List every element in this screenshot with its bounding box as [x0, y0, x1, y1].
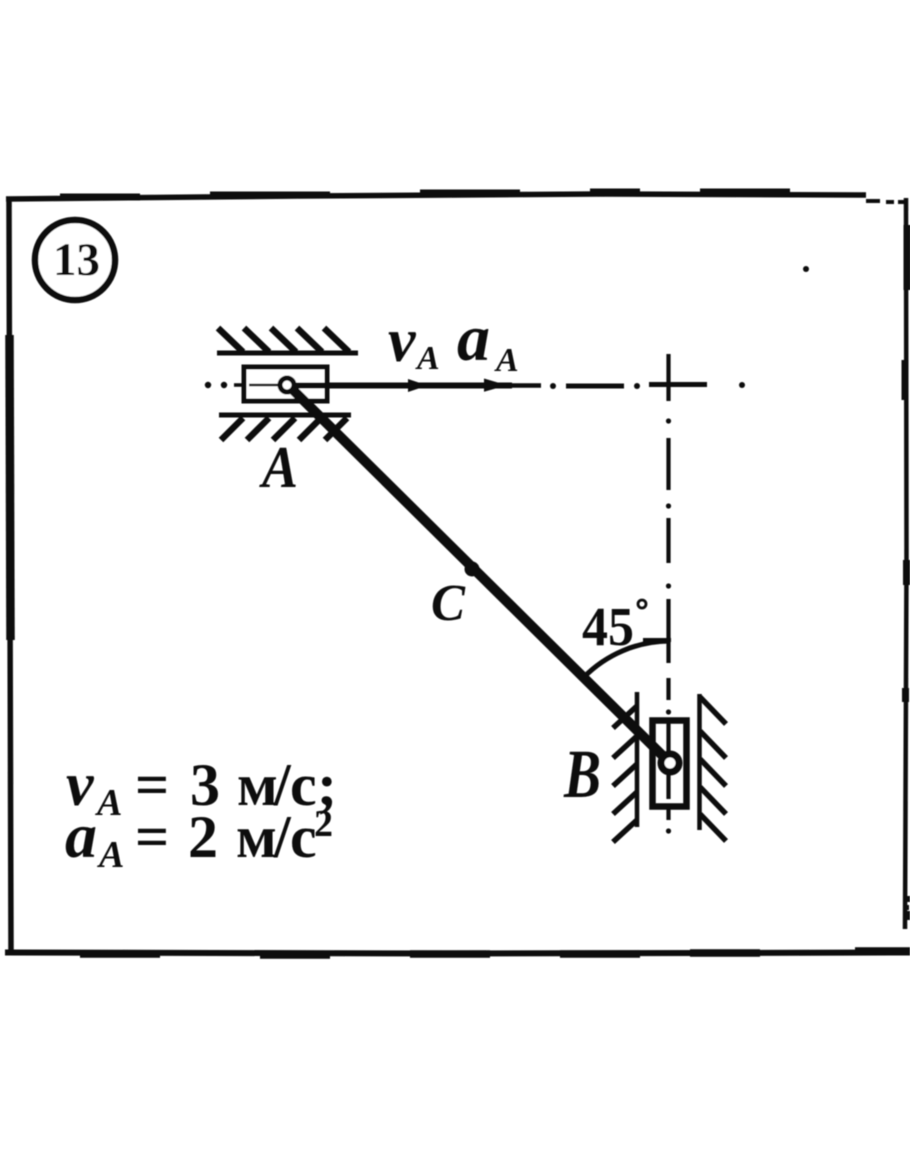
svg-text:A: A	[494, 342, 519, 379]
svg-text:45: 45	[582, 596, 634, 657]
svg-text:13: 13	[53, 234, 100, 286]
svg-text:2: 2	[188, 804, 218, 870]
svg-text:C: C	[431, 575, 466, 632]
svg-text:a: a	[457, 302, 490, 375]
svg-text:A: A	[97, 834, 124, 876]
svg-text:м: м	[236, 804, 277, 870]
svg-text:a: a	[65, 800, 97, 871]
svg-text:A: A	[258, 434, 298, 500]
svg-text:A: A	[95, 782, 122, 824]
svg-text:v: v	[388, 307, 417, 375]
svg-text:с: с	[290, 804, 317, 870]
svg-text:2: 2	[314, 803, 333, 845]
svg-text:=: =	[135, 804, 169, 870]
svg-text:B: B	[563, 736, 601, 812]
svg-text:A: A	[415, 340, 440, 377]
